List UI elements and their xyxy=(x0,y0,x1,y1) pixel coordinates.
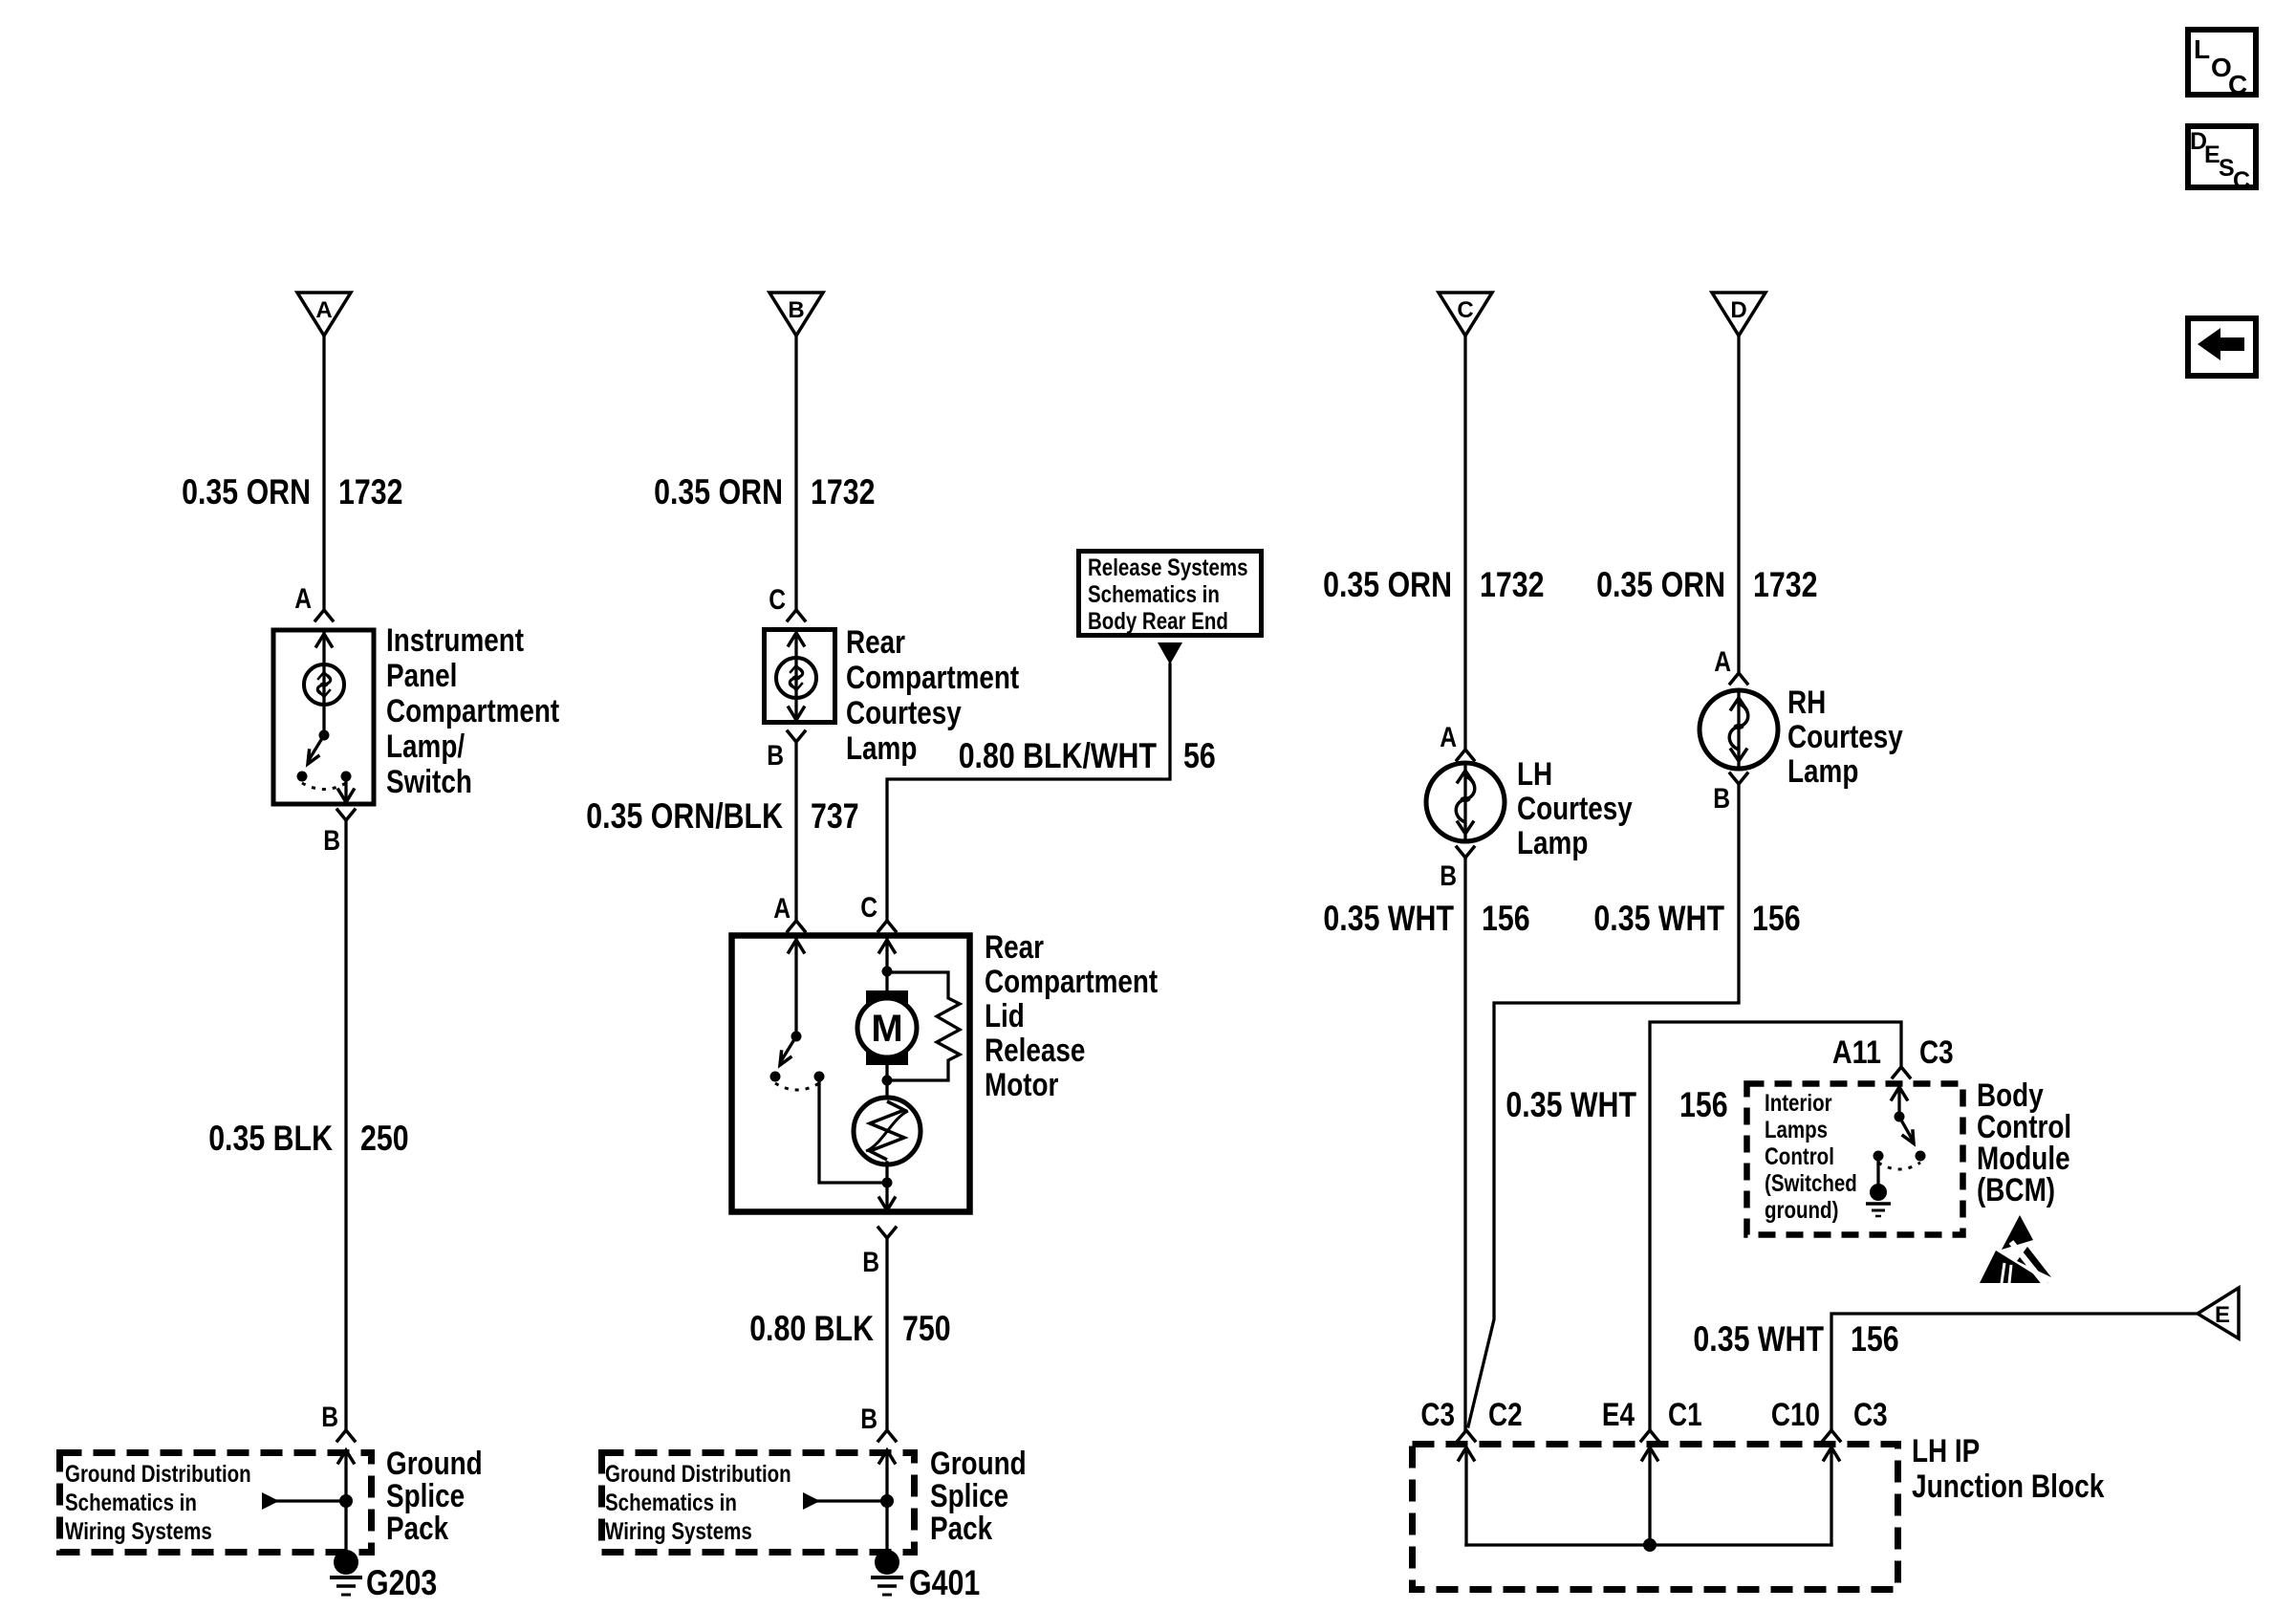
svg-text:Schematics in: Schematics in xyxy=(65,1490,197,1516)
LH IP junction block box xyxy=(1413,1445,1898,1590)
svg-text:1732: 1732 xyxy=(811,472,876,511)
wire label 0.35 ORN/BLK 737 xyxy=(586,796,858,836)
wire motor pin B to G401 splice xyxy=(878,1228,896,1441)
svg-text:LH: LH xyxy=(1517,756,1552,793)
svg-text:250: 250 xyxy=(360,1119,409,1158)
off-page connector triangle C xyxy=(1439,293,1492,336)
svg-text:G203: G203 xyxy=(366,1563,437,1602)
pin E4 label (JB) xyxy=(1602,1397,1635,1433)
pin B internal arrow (lamp/switch) xyxy=(338,776,354,802)
switch S1 arm xyxy=(308,735,324,764)
svg-text:E: E xyxy=(2215,1302,2230,1328)
RH courtesy lamp E4 xyxy=(1700,690,1778,769)
pin C label (release motor) xyxy=(860,892,877,924)
pin C internal arrow (motor box) xyxy=(879,940,895,971)
svg-text:1732: 1732 xyxy=(1480,565,1545,604)
release systems feed arrow xyxy=(1158,642,1182,664)
svg-text:Lamp: Lamp xyxy=(1787,753,1858,790)
svg-text:Instrument: Instrument xyxy=(386,622,524,659)
wire triangle E to junction block pin C3 xyxy=(1823,1314,2198,1441)
BCM switch arm xyxy=(1899,1117,1914,1143)
svg-text:Compartment: Compartment xyxy=(846,660,1019,696)
note ground distribution schematics (G203) xyxy=(65,1461,251,1545)
svg-text:156: 156 xyxy=(1752,899,1801,938)
wire lamp/switch pin B to G203 splice xyxy=(337,810,355,1441)
svg-text:Body Rear End: Body Rear End xyxy=(1088,608,1228,635)
wire triangle C to LH lamp pin A xyxy=(1457,336,1474,760)
svg-text:Compartment: Compartment xyxy=(985,964,1158,1000)
lamp E2 filament xyxy=(776,658,816,698)
switch S1 pivot xyxy=(319,730,330,741)
pin C3 label (JB right) xyxy=(1853,1397,1888,1433)
JB internal bus node xyxy=(1643,1538,1657,1552)
svg-text:Ground Distribution: Ground Distribution xyxy=(65,1461,251,1488)
switch S1 travel arc xyxy=(302,783,346,790)
pin C10 label (JB) xyxy=(1771,1397,1820,1433)
component label ground splice pack (G401) xyxy=(930,1446,1027,1547)
svg-text:A: A xyxy=(773,893,791,925)
svg-text:C: C xyxy=(2228,70,2247,99)
JB internal pin arrow C1 xyxy=(1642,1447,1657,1545)
svg-text:B: B xyxy=(1440,860,1457,892)
pin B label (LH courtesy lamp) xyxy=(1440,860,1457,892)
pin B internal arrow (lamp E2) xyxy=(789,698,804,720)
svg-text:C3: C3 xyxy=(1420,1397,1455,1433)
svg-text:Rear: Rear xyxy=(846,624,905,661)
svg-text:0.35 ORN: 0.35 ORN xyxy=(654,472,783,511)
switch S2 contact left xyxy=(770,1072,781,1082)
ground splice pack box (G401) xyxy=(602,1453,915,1553)
legend box DESC xyxy=(2188,126,2256,194)
svg-text:C: C xyxy=(769,584,786,616)
splice pack internal pin arrow (G401) xyxy=(879,1450,895,1501)
JB internal pin arrow C2 xyxy=(1459,1447,1474,1545)
off-page connector triangle B xyxy=(769,293,823,336)
svg-text:C: C xyxy=(2233,167,2250,194)
wire splice to ground G401 xyxy=(885,1501,888,1556)
component label RH courtesy lamp xyxy=(1787,685,1903,790)
wire label 0.35 ORN 1732 (circuit C) xyxy=(1323,565,1544,604)
wire splice to ground G203 xyxy=(344,1501,347,1556)
note interior lamps control (switched ground) xyxy=(1765,1090,1857,1224)
wire breaker to node B xyxy=(885,1163,888,1183)
svg-text:Release Systems: Release Systems xyxy=(1088,555,1248,581)
svg-text:Ground: Ground xyxy=(930,1446,1027,1482)
BCM switch contact left xyxy=(1874,1151,1884,1162)
svg-text:A: A xyxy=(315,297,332,323)
wire label 0.35 WHT 156 (E) xyxy=(1693,1319,1898,1359)
pin B label (ground splice pack G203) xyxy=(321,1402,338,1433)
svg-text:Courtesy: Courtesy xyxy=(1517,791,1633,827)
node motor output xyxy=(882,1178,893,1188)
svg-text:C10: C10 xyxy=(1771,1397,1820,1433)
svg-text:Lamp: Lamp xyxy=(846,730,917,767)
wire label 0.35 BLK 250 xyxy=(208,1119,408,1158)
pin A label (RH courtesy lamp) xyxy=(1714,646,1731,678)
splice junction node (G203) xyxy=(339,1494,353,1508)
component label ground splice pack (G203) xyxy=(386,1446,483,1547)
svg-text:Pack: Pack xyxy=(930,1511,992,1547)
svg-text:0.35 BLK: 0.35 BLK xyxy=(208,1119,333,1158)
svg-text:Lamps: Lamps xyxy=(1765,1117,1828,1143)
svg-text:C2: C2 xyxy=(1488,1397,1523,1433)
svg-text:Control: Control xyxy=(1765,1143,1834,1170)
component label rear compartment courtesy lamp xyxy=(846,624,1019,767)
BCM switch pivot xyxy=(1895,1112,1905,1122)
switch S1 contact left xyxy=(297,772,308,782)
svg-text:Lamp: Lamp xyxy=(1517,825,1588,861)
svg-text:B: B xyxy=(860,1403,877,1435)
off-page connector triangle E xyxy=(2198,1288,2239,1338)
pin B label (lamp E2) xyxy=(767,740,784,772)
wire triangle D to RH lamp pin A xyxy=(1730,336,1747,684)
svg-text:A: A xyxy=(1440,722,1457,753)
svg-text:A: A xyxy=(294,583,312,615)
LH courtesy lamp E3 xyxy=(1426,763,1505,841)
svg-text:Lamp/: Lamp/ xyxy=(386,729,466,765)
ground G203 symbol xyxy=(330,1550,362,1595)
svg-text:Lid: Lid xyxy=(985,998,1025,1034)
component label LH IP junction block xyxy=(1912,1433,2104,1505)
svg-text:B: B xyxy=(788,297,804,323)
wire label 0.35 ORN 1732 (circuit B) xyxy=(654,472,875,511)
svg-text:Splice: Splice xyxy=(930,1478,1008,1514)
wire switch S2 to motor low node xyxy=(819,1077,887,1183)
wire motor to circuit breaker xyxy=(885,1080,888,1099)
svg-text:ground): ground) xyxy=(1765,1197,1838,1224)
pin B label (lamp/switch) xyxy=(323,825,340,857)
motor M1 symbol xyxy=(857,971,917,1080)
rear compartment lid release motor box M1 xyxy=(732,936,970,1212)
pin B internal arrow (motor box) xyxy=(879,1183,895,1210)
pin B label (motor box) xyxy=(862,1247,879,1278)
component label LH courtesy lamp xyxy=(1517,756,1633,861)
svg-text:0.35 WHT: 0.35 WHT xyxy=(1323,899,1454,938)
wire LH lamp pin B to junction block pin C2 xyxy=(1457,847,1475,1441)
pin A label (lamp/switch) xyxy=(294,583,312,615)
wire label 0.80 BLK/WHT 56 xyxy=(959,736,1216,775)
pin A11 label xyxy=(1832,1034,1881,1071)
switch S2 pivot xyxy=(791,1032,802,1042)
svg-text:D: D xyxy=(1730,297,1746,323)
switch S2 contact right xyxy=(814,1072,825,1082)
splice branch arrow (G203) xyxy=(262,1492,346,1510)
BCM internal ground symbol xyxy=(1866,1184,1891,1216)
circuit breaker CB1 (thermal) xyxy=(854,1098,921,1164)
BCM internal ground wire xyxy=(1876,1156,1879,1186)
pin C3 label (BCM) xyxy=(1919,1034,1954,1071)
svg-text:Rear: Rear xyxy=(985,929,1044,966)
wire BCM pin A11 to junction block pin C1 xyxy=(1641,1022,1910,1441)
svg-text:A11: A11 xyxy=(1832,1034,1881,1071)
svg-text:Schematics in: Schematics in xyxy=(1088,581,1220,608)
svg-text:750: 750 xyxy=(902,1309,951,1348)
component label body control module (BCM) xyxy=(1977,1077,2071,1208)
svg-text:Release: Release xyxy=(985,1033,1085,1069)
node motor top xyxy=(882,967,893,977)
svg-text:G401: G401 xyxy=(909,1563,980,1602)
node motor bottom xyxy=(882,1076,893,1086)
wire RH lamp pin B to junction block pin C2 xyxy=(1468,773,1747,1426)
note box release systems schematics xyxy=(1079,552,1262,636)
lamp E1 filament xyxy=(304,664,344,705)
wire label 0.35 ORN 1732 (circuit D) xyxy=(1596,565,1817,604)
ground G401 label xyxy=(909,1563,980,1602)
svg-text:0.35 ORN: 0.35 ORN xyxy=(1596,565,1725,604)
svg-text:Schematics in: Schematics in xyxy=(605,1490,737,1516)
svg-text:Courtesy: Courtesy xyxy=(1787,719,1903,755)
BCM internal pin arrow xyxy=(1892,1087,1907,1117)
switch S2 travel arc xyxy=(775,1083,819,1090)
svg-text:Splice: Splice xyxy=(386,1478,465,1514)
svg-text:1732: 1732 xyxy=(1753,565,1818,604)
svg-text:Motor: Motor xyxy=(985,1067,1058,1103)
wire triangle B to courtesy lamp pin C xyxy=(788,336,805,620)
body control module box U1 (BCM) xyxy=(1747,1084,1963,1235)
splice junction node (G401) xyxy=(880,1494,894,1508)
svg-text:0.35 ORN/BLK: 0.35 ORN/BLK xyxy=(586,796,783,836)
ground G401 symbol xyxy=(871,1550,903,1595)
pin B label (ground splice pack G401) xyxy=(860,1403,877,1435)
svg-text:B: B xyxy=(321,1402,338,1433)
pin A label (LH courtesy lamp) xyxy=(1440,722,1457,753)
pin A label (release motor) xyxy=(773,893,791,925)
pin C internal arrow (lamp E2) xyxy=(789,633,804,658)
svg-text:0.35 ORN: 0.35 ORN xyxy=(1323,565,1452,604)
splice branch arrow (G401) xyxy=(803,1492,887,1510)
svg-text:B: B xyxy=(767,740,784,772)
svg-text:C1: C1 xyxy=(1668,1397,1702,1433)
wire label 0.35 WHT 156 (BCM) xyxy=(1505,1085,1727,1124)
svg-text:Ground: Ground xyxy=(386,1446,483,1482)
svg-text:B: B xyxy=(323,825,340,857)
svg-text:B: B xyxy=(1713,783,1730,815)
pin B label (RH courtesy lamp) xyxy=(1713,783,1730,815)
svg-text:Junction Block: Junction Block xyxy=(1912,1469,2104,1505)
svg-text:1732: 1732 xyxy=(338,472,403,511)
pin C2 label (JB) xyxy=(1488,1397,1523,1433)
svg-text:Interior: Interior xyxy=(1765,1090,1832,1117)
lamp to switch wire xyxy=(322,705,325,735)
svg-text:Switch: Switch xyxy=(386,764,472,800)
svg-text:(BCM): (BCM) xyxy=(1977,1172,2055,1208)
wire release systems to motor pin C xyxy=(878,664,1170,931)
svg-text:0.80 BLK: 0.80 BLK xyxy=(749,1309,874,1348)
rear compartment courtesy lamp box E2 xyxy=(765,630,835,723)
svg-text:0.35 WHT: 0.35 WHT xyxy=(1693,1319,1824,1359)
svg-text:56: 56 xyxy=(1183,736,1216,775)
pin C1 label (JB) xyxy=(1668,1397,1702,1433)
svg-text:C3: C3 xyxy=(1853,1397,1888,1433)
svg-text:737: 737 xyxy=(811,796,859,836)
svg-text:Panel: Panel xyxy=(386,658,457,694)
svg-text:Compartment: Compartment xyxy=(386,693,559,729)
wire label 0.80 BLK 750 xyxy=(749,1309,950,1348)
svg-text:C3: C3 xyxy=(1919,1034,1954,1071)
wire label 0.35 WHT 156 (RH) xyxy=(1593,899,1800,938)
ground G203 label xyxy=(366,1563,437,1602)
svg-text:B: B xyxy=(862,1247,879,1278)
svg-text:Pack: Pack xyxy=(386,1511,448,1547)
BCM switch contact right xyxy=(1916,1151,1926,1162)
svg-text:156: 156 xyxy=(1851,1319,1899,1359)
svg-text:LH IP: LH IP xyxy=(1912,1433,1980,1469)
svg-text:A: A xyxy=(1714,646,1731,678)
svg-text:0.35 WHT: 0.35 WHT xyxy=(1593,899,1724,938)
back arrow button xyxy=(2188,318,2256,376)
svg-text:0.35 ORN: 0.35 ORN xyxy=(182,472,311,511)
wire label 0.35 WHT 156 (LH) xyxy=(1323,899,1529,938)
splice pack internal pin arrow (G203) xyxy=(338,1450,354,1501)
component label rear compartment lid release motor xyxy=(985,929,1158,1103)
legend box LOC xyxy=(2188,30,2256,99)
pin A internal arrow xyxy=(316,634,332,664)
svg-text:156: 156 xyxy=(1482,899,1530,938)
off-page connector triangle D xyxy=(1712,293,1765,336)
pin C label (rear courtesy lamp) xyxy=(769,584,786,616)
JB internal bus wire xyxy=(1466,1543,1831,1546)
svg-text:C: C xyxy=(1457,297,1473,323)
BCM switch travel arc xyxy=(1878,1163,1920,1169)
svg-text:0.35 WHT: 0.35 WHT xyxy=(1505,1085,1636,1124)
svg-text:Wiring Systems: Wiring Systems xyxy=(65,1518,212,1545)
ground splice pack box (G203) xyxy=(60,1453,372,1553)
svg-text:M: M xyxy=(871,1008,902,1050)
svg-text:Ground Distribution: Ground Distribution xyxy=(605,1461,791,1488)
instrument panel compartment lamp/switch box E1 xyxy=(273,630,374,804)
svg-text:C: C xyxy=(860,892,877,924)
resistor R1 (motor shunt) xyxy=(887,972,960,1080)
wire lamp E2 pin B to motor pin A xyxy=(788,731,805,931)
switch S1 contact right xyxy=(341,772,352,782)
pin A internal arrow (motor box) xyxy=(789,940,804,1036)
wire triangle A to lamp/switch pin A xyxy=(315,336,333,620)
switch S2 arm xyxy=(780,1036,796,1065)
svg-text:E4: E4 xyxy=(1602,1397,1635,1433)
svg-text:RH: RH xyxy=(1787,685,1826,721)
svg-text:(Switched: (Switched xyxy=(1765,1170,1857,1197)
svg-text:0.80 BLK/WHT: 0.80 BLK/WHT xyxy=(959,736,1158,775)
svg-text:L: L xyxy=(2194,34,2210,64)
pin C3 label (JB left outer) xyxy=(1420,1397,1455,1433)
JB internal pin arrow C3 xyxy=(1824,1447,1839,1545)
component label instrument panel compartment lamp/switch xyxy=(386,622,559,800)
svg-text:Courtesy: Courtesy xyxy=(846,695,962,731)
off-page connector triangle A xyxy=(297,293,351,336)
svg-text:Wiring Systems: Wiring Systems xyxy=(605,1518,752,1545)
wire label 0.35 ORN 1732 (circuit A) xyxy=(182,472,402,511)
svg-text:156: 156 xyxy=(1679,1085,1728,1124)
note ground distribution schematics (G401) xyxy=(605,1461,791,1545)
ESD sensitivity symbol xyxy=(1980,1215,2051,1286)
